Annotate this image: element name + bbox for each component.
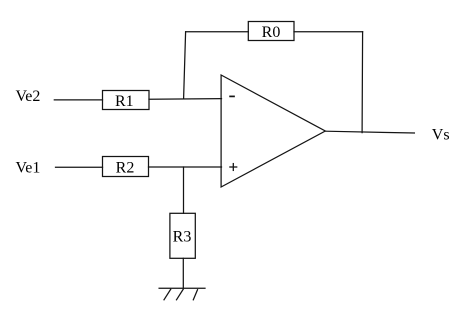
wire Ve2 to R1 [54, 99, 102, 101]
ground [159, 288, 205, 300]
wire R3 to ground [182, 258, 184, 288]
wire feedback right vertical to output node [361, 32, 364, 133]
wire node B down to R3 [183, 167, 185, 213]
svg-text:R0: R0 [262, 24, 281, 41]
wire feedback left vertical [184, 32, 186, 99]
resistor R1 [103, 91, 150, 111]
wire node A to R0 [186, 31, 249, 33]
svg-text:R1: R1 [115, 93, 134, 110]
resistor R3 [170, 213, 195, 258]
wire output to Vs [325, 131, 414, 133]
resistor R0 [248, 22, 294, 42]
svg-text:Ve2: Ve2 [16, 88, 41, 105]
minus pin mark [230, 95, 234, 97]
plus pin mark [230, 164, 237, 171]
wire Ve1 to R2 [56, 166, 103, 168]
svg-text:Ve1: Ve1 [16, 160, 41, 177]
svg-text:Vs: Vs [432, 127, 450, 144]
wire R0 to feedback right vertical [294, 31, 363, 33]
wire R1 to op-amp inverting input [149, 98, 222, 101]
resistor R2 [103, 157, 149, 177]
svg-text:R3: R3 [173, 228, 192, 245]
svg-text:R2: R2 [116, 160, 135, 177]
op-amp U1 [221, 75, 325, 187]
wire R2 to op-amp non-inverting input [149, 166, 222, 168]
